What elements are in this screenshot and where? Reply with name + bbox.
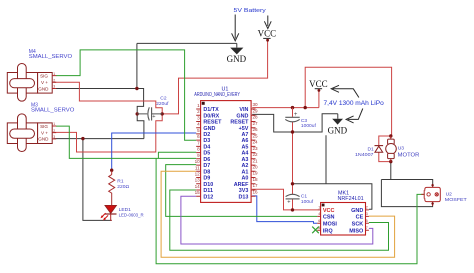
junction C3 negative on GND line [291, 130, 294, 133]
junction VIN VCC riser node [304, 106, 307, 109]
svg-text:D6: D6 [203, 157, 210, 163]
servo M4 [7, 64, 56, 102]
wire M4 SIG to Arduino D3 [56, 50, 196, 140]
svg-text:24: 24 [253, 140, 259, 145]
svg-text:A7: A7 [241, 132, 248, 138]
svg-text:13: 13 [195, 178, 201, 183]
ground symbol GND2 LiPo [328, 119, 348, 136]
junction C2 negative node [136, 112, 139, 115]
svg-text:19: 19 [253, 171, 259, 176]
svg-text:A6: A6 [241, 138, 248, 144]
svg-text:9: 9 [197, 153, 200, 158]
svg-text:MISO: MISO [349, 228, 364, 234]
svg-text:VCC: VCC [309, 79, 328, 89]
svg-text:U2: U2 [446, 191, 453, 197]
LED LED1 [101, 205, 117, 220]
svg-text:22: 22 [253, 152, 259, 157]
wire motor minus to MOSFET drain and source to ground bus [381, 162, 432, 207]
svg-text:SCK: SCK [352, 222, 364, 228]
svg-text:D4: D4 [203, 145, 210, 151]
wire VCC1 5V battery feed to C2 positive node [162, 40, 267, 114]
svg-text:220Ω: 220Ω [117, 184, 129, 190]
label C1 100uf [301, 194, 314, 205]
svg-text:2: 2 [53, 129, 55, 133]
arrow from LiPo label to VCC2 [331, 85, 359, 97]
wire D5 net to MOSFET gate [156, 158, 425, 263]
junction M3 GND node [81, 137, 84, 140]
svg-text:2: 2 [366, 206, 368, 210]
wire C2 positive down to M3 V+ [54, 114, 163, 152]
junction motor plus node [389, 134, 392, 137]
svg-text:+: + [152, 114, 155, 120]
svg-text:1000uf: 1000uf [301, 123, 317, 129]
svg-text:15: 15 [195, 190, 201, 195]
svg-text:D9: D9 [203, 176, 210, 182]
svg-text:+: + [287, 200, 290, 206]
svg-text:1N4007: 1N4007 [355, 152, 374, 158]
svg-text:D10: D10 [203, 182, 213, 188]
power symbol VCC1 [258, 29, 277, 42]
svg-text:D5: D5 [203, 151, 210, 157]
svg-text:3: 3 [366, 212, 368, 216]
arrow from 5V Battery to GND [232, 15, 239, 41]
svg-text:A1: A1 [241, 169, 248, 175]
svg-text:D8: D8 [203, 169, 210, 175]
op-amp U1 Arduino Nano Every [195, 101, 258, 203]
wire Arduino D5 tap [158, 152, 196, 158]
svg-text:4: 4 [197, 122, 200, 127]
wire Arduino D11 to NRF24L01 SCK [170, 190, 389, 250]
svg-text:20: 20 [253, 165, 259, 170]
label D1 1N4007 [355, 146, 374, 158]
capacitor C2 [137, 107, 162, 120]
svg-text:5V Battery: 5V Battery [234, 8, 266, 14]
servo M3 [7, 114, 56, 152]
junction VIN C3 node [291, 106, 294, 109]
svg-text:D3: D3 [203, 138, 210, 144]
svg-text:27: 27 [253, 121, 259, 126]
svg-text:D7: D7 [203, 163, 210, 169]
wire M3 SIG to Arduino D6 [56, 126, 196, 158]
svg-text:100uf: 100uf [301, 199, 314, 205]
svg-text:5: 5 [366, 219, 368, 223]
wire M4 V+ to C2 positive [54, 82, 163, 114]
svg-text:GND: GND [328, 125, 348, 135]
svg-text:AREF: AREF [234, 182, 249, 188]
svg-text:RESET: RESET [203, 120, 222, 126]
svg-text:23: 23 [253, 146, 259, 151]
svg-text:CE: CE [356, 215, 364, 221]
wire GND top rail to GND symbol [137, 43, 237, 47]
svg-text:10: 10 [195, 159, 201, 164]
svg-text:IRQ: IRQ [323, 228, 334, 234]
svg-text:A0: A0 [241, 176, 248, 182]
svg-text:16: 16 [253, 189, 259, 194]
svg-text:NRF24L01: NRF24L01 [338, 196, 364, 202]
svg-text:V +: V + [41, 130, 48, 135]
svg-text:7,4V 1300 mAh LiPo: 7,4V 1300 mAh LiPo [324, 100, 385, 107]
wire Arduino GND pin29 to GND symbol near LiPo [252, 114, 338, 132]
svg-text:GND: GND [236, 113, 248, 119]
svg-text:D12: D12 [203, 194, 213, 200]
svg-text:GND: GND [351, 208, 363, 214]
svg-text:GND: GND [38, 86, 49, 91]
diode D1 [375, 146, 384, 153]
junction C2 positive node [161, 112, 164, 115]
arrow from LiPo label to GND2 [346, 109, 363, 123]
svg-text:LED-0603_R: LED-0603_R [119, 213, 144, 219]
svg-text:D0/RX: D0/RX [203, 113, 219, 119]
label U1 ARDUINO_NANO_EVERY [194, 87, 240, 98]
svg-text:17: 17 [253, 183, 259, 188]
svg-text:7: 7 [366, 226, 368, 230]
svg-text:D1: D1 [368, 146, 375, 152]
junction C1 bottom on NRF VCC line [291, 208, 294, 211]
wire C3 leads and C1 feed [292, 108, 294, 210]
svg-text:U3: U3 [398, 146, 405, 152]
svg-text:CSN: CSN [323, 215, 335, 221]
svg-text:6: 6 [318, 219, 320, 223]
svg-text:MOSI: MOSI [323, 222, 338, 228]
label MK1 NRF24L01 [338, 190, 364, 202]
svg-text:A3: A3 [241, 157, 248, 163]
arrow from 5V Battery to VCC [264, 16, 271, 29]
wire GND rail drop to M4 GND pin [54, 43, 137, 88]
label R1 220 ohm [117, 178, 129, 189]
svg-text:3: 3 [53, 135, 55, 139]
svg-text:12: 12 [195, 172, 201, 177]
power symbol VCC2 LiPo [309, 79, 328, 92]
svg-text:1: 1 [318, 206, 320, 210]
label C2 220uf [156, 95, 169, 107]
svg-text:VCC: VCC [258, 29, 277, 39]
svg-text:11: 11 [195, 165, 200, 170]
svg-text:28: 28 [253, 115, 259, 120]
svg-text:V +: V + [41, 80, 48, 85]
wire Arduino D12 to NRF24L01 MISO [181, 196, 373, 244]
svg-text:A2: A2 [241, 163, 248, 169]
junction motor minus node [389, 160, 392, 163]
svg-text:SIG: SIG [40, 73, 48, 78]
svg-text:26: 26 [253, 127, 259, 132]
svg-text:RESET: RESET [230, 120, 249, 126]
wire motor flyback diode loop [379, 136, 391, 162]
svg-text:3: 3 [53, 85, 55, 89]
wire GND2 down to NRF ground bus [325, 135, 327, 184]
svg-text:VCC: VCC [323, 208, 335, 214]
label U2 MOSFET [445, 191, 467, 203]
svg-text:1: 1 [197, 103, 200, 108]
wire Arduino D2 to R1 LED branch [112, 133, 197, 170]
label U3 MOTOR [398, 146, 420, 159]
ground symbol GND1 [227, 48, 247, 64]
capacitor C3 [285, 112, 299, 122]
svg-text:30: 30 [253, 102, 259, 107]
svg-text:ARDUINO_NANO_EVERY: ARDUINO_NANO_EVERY [194, 92, 240, 98]
label M4 SMALL_SERVO [29, 49, 72, 60]
no-connect X on IRQ pin [312, 227, 319, 234]
label M3 SMALL_SERVO [31, 102, 74, 113]
IC MK1 NRF24L01 [317, 203, 369, 236]
wire Arduino D8 to NRF24L01 CE [161, 171, 395, 257]
svg-text:2: 2 [197, 109, 200, 114]
svg-text:MOSFET: MOSFET [445, 197, 467, 203]
svg-text:SMALL_SERVO: SMALL_SERVO [29, 54, 72, 60]
svg-text:A4: A4 [241, 151, 248, 157]
svg-text:14: 14 [195, 184, 201, 189]
junction C1 top on ground bus [291, 182, 294, 185]
svg-text:D11: D11 [203, 188, 213, 194]
label C3 1000uf [301, 118, 317, 129]
wire GND jog around C2 negative lead down to M3 GND [54, 89, 144, 139]
svg-text:LED1: LED1 [119, 207, 132, 213]
wire Arduino VIN line with VCC2 [252, 67, 391, 136]
motor U3 [386, 136, 397, 162]
svg-text:VIN: VIN [239, 107, 248, 113]
resistor R1 [109, 171, 115, 206]
svg-text:25: 25 [253, 133, 259, 138]
svg-text:4: 4 [318, 212, 320, 216]
svg-text:SMALL_SERVO: SMALL_SERVO [31, 108, 74, 114]
svg-text:+5V: +5V [239, 126, 249, 132]
svg-text:C2: C2 [160, 95, 167, 101]
svg-text:18: 18 [253, 177, 259, 182]
svg-text:1: 1 [53, 122, 55, 126]
svg-text:8: 8 [197, 147, 200, 152]
svg-text:C1: C1 [301, 194, 308, 200]
wire ground bus to NRF24L01 GND pin [293, 184, 372, 209]
wire Arduino D7 to NRF24L01 CSN [166, 165, 318, 217]
capacitor C1 [286, 194, 300, 205]
svg-text:GND: GND [38, 137, 49, 142]
svg-text:A5: A5 [241, 145, 248, 151]
svg-text:3: 3 [197, 116, 200, 121]
svg-text:D1/TX: D1/TX [203, 107, 219, 113]
junction R1 top node [110, 169, 113, 172]
svg-text:D2: D2 [203, 132, 210, 138]
svg-text:MOTOR: MOTOR [398, 152, 420, 158]
wire M3 GND junction down-around to LED1 cathode [83, 139, 112, 221]
svg-text:220uf: 220uf [156, 101, 169, 107]
svg-text:7: 7 [197, 140, 200, 145]
svg-text:+: + [294, 112, 298, 118]
svg-text:2: 2 [53, 78, 55, 82]
svg-text:GND: GND [203, 126, 215, 132]
svg-text:SIG: SIG [40, 124, 48, 129]
junction M4 GND node [135, 87, 138, 90]
svg-text:29: 29 [253, 108, 259, 113]
wire Arduino D13 to NRF24L01 MOSI [252, 196, 317, 223]
svg-text:6: 6 [197, 134, 200, 139]
label LED1 LED-0603_R [119, 207, 144, 218]
svg-text:GND: GND [227, 54, 247, 64]
svg-text:R1: R1 [117, 178, 124, 184]
svg-text:5: 5 [197, 128, 200, 133]
svg-text:21: 21 [253, 158, 259, 163]
wire Arduino 3V3 to NRF24L01 VCC [252, 189, 317, 210]
svg-text:3V3: 3V3 [239, 188, 249, 194]
svg-text:D13: D13 [239, 194, 249, 200]
svg-text:1: 1 [53, 72, 55, 76]
transistor U2 MOSFET [421, 184, 440, 206]
